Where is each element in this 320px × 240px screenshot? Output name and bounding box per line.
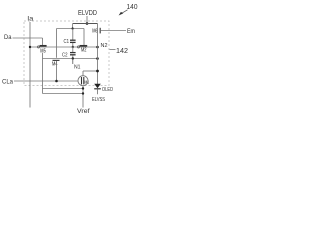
transistor M4 xyxy=(52,60,60,81)
node dot y88.5 xyxy=(82,87,84,89)
wire Da horizontal xyxy=(13,37,43,39)
wire M4 feed vertical xyxy=(56,29,58,58)
node dot N2 xyxy=(96,46,99,49)
wire rail left drop xyxy=(72,24,74,29)
wire M5 drain vertical long xyxy=(42,53,44,94)
svg-text:ELVSS: ELVSS xyxy=(92,97,105,103)
wire M1 source vertical to Vref xyxy=(82,86,84,108)
svg-text:140: 140 xyxy=(127,4,138,11)
wire Da corner drop xyxy=(42,38,44,45)
svg-text:Em: Em xyxy=(127,29,135,35)
node dot at anode line xyxy=(96,70,99,73)
wire supply branch y28.5 xyxy=(57,28,85,30)
svg-text:M6: M6 xyxy=(92,28,98,34)
node dot N1 right xyxy=(96,57,99,60)
capacitor C2 xyxy=(70,47,76,59)
label 142 with leader xyxy=(110,48,129,55)
svg-text:Ia: Ia xyxy=(27,17,34,23)
node dot CLa junction xyxy=(55,80,58,83)
node N1 leader xyxy=(72,59,74,65)
dashed box 142 xyxy=(24,21,109,86)
transistor M6 xyxy=(92,28,126,35)
svg-text:CLa: CLa xyxy=(2,79,14,85)
svg-text:Da: Da xyxy=(4,35,12,41)
wire M1 drain row y71 xyxy=(83,70,98,72)
transistor M1 xyxy=(78,76,89,86)
wire M1 drain drop xyxy=(82,71,84,76)
svg-text:C1: C1 xyxy=(64,39,70,45)
figure label 140 xyxy=(119,4,138,16)
svg-text:OLED: OLED xyxy=(102,87,113,93)
node dot ELVDD tap xyxy=(86,22,89,25)
wire M2 feed vertical xyxy=(83,29,85,46)
node dot y93.5 xyxy=(82,92,84,94)
transistor M5 xyxy=(37,46,46,55)
diode OLED xyxy=(94,84,101,94)
wire mid row y47 xyxy=(30,46,98,48)
wire CLa row y81 xyxy=(14,80,78,82)
svg-text:M2: M2 xyxy=(81,48,87,54)
svg-text:ELVDD: ELVDD xyxy=(78,10,97,17)
svg-text:M1: M1 xyxy=(85,80,90,85)
capacitor C1 xyxy=(70,29,76,48)
wire ELVDD rail xyxy=(73,23,98,25)
wire Ia control line vertical xyxy=(29,22,31,108)
svg-text:Vref: Vref xyxy=(77,109,90,115)
node dot Ia gate tap xyxy=(29,46,31,48)
node dot N1 xyxy=(72,57,74,59)
node dot C1-C2 xyxy=(72,46,74,48)
wire N1 row y58.5 xyxy=(43,58,98,60)
wire row y88.5 xyxy=(43,88,84,90)
wire ELVDD to OLED vertical xyxy=(97,24,99,85)
wire row y93.5 xyxy=(43,93,84,95)
node dot at C1 top branch xyxy=(72,27,74,29)
svg-text:C2: C2 xyxy=(62,53,68,59)
svg-text:N2: N2 xyxy=(101,43,108,49)
svg-text:142: 142 xyxy=(116,48,128,55)
svg-text:M5: M5 xyxy=(40,48,46,54)
wire ELVDD lead xyxy=(86,16,88,24)
svg-text:N1: N1 xyxy=(74,65,81,71)
transistor M2 xyxy=(77,46,87,54)
